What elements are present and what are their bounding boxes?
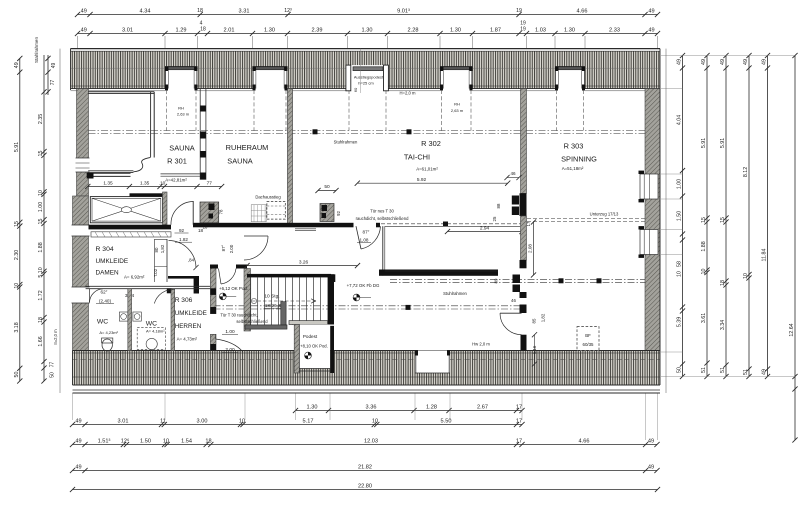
- damen bench: [91, 232, 171, 237]
- svg-text:77: 77: [50, 362, 56, 368]
- Ausstiegspodest opening: [346, 65, 389, 91]
- svg-text:+6,12 OK Pod.: +6,12 OK Pod.: [219, 286, 248, 291]
- svg-text:10: 10: [677, 271, 683, 277]
- svg-text:,84: ,84: [188, 258, 195, 263]
- svg-text:1.66: 1.66: [38, 336, 44, 346]
- dormer opening 1: [165, 67, 198, 90]
- right dim col 5: [767, 56, 769, 377]
- svg-text:2.00: 2.00: [229, 244, 234, 253]
- svg-text:4.66: 4.66: [577, 8, 588, 14]
- svg-text:21.82: 21.82: [358, 464, 372, 470]
- svg-text:80: 80: [154, 247, 159, 252]
- stair landing south band: [245, 325, 287, 329]
- right dim col 1: [682, 56, 684, 377]
- svg-text:1.82: 1.82: [179, 237, 188, 242]
- svg-text:92: 92: [336, 211, 341, 216]
- svg-text:5.92: 5.92: [417, 177, 427, 183]
- purlin dash-dot line spinning: [390, 278, 645, 280]
- svg-text:3.01: 3.01: [118, 418, 129, 424]
- svg-text:(2,40): (2,40): [99, 299, 111, 304]
- dim 2.94: [448, 231, 523, 233]
- svg-text:SAUNA: SAUNA: [227, 157, 253, 166]
- svg-text:18: 18: [38, 317, 44, 323]
- svg-text:R 302: R 302: [421, 139, 441, 148]
- svg-text:49: 49: [648, 8, 654, 14]
- svg-text:18: 18: [203, 225, 208, 230]
- svg-text:R 306: R 306: [175, 297, 193, 304]
- svg-text:19: 19: [520, 27, 526, 33]
- svg-text:1.30: 1.30: [264, 27, 275, 33]
- svg-text:5.39: 5.39: [677, 317, 683, 327]
- purlin dash-dot line upper: [89, 130, 646, 132]
- dim 1.16 vertical: [534, 335, 536, 364]
- svg-text:2.33: 2.33: [609, 27, 620, 33]
- svg-text:5 10: 5 10: [38, 267, 44, 277]
- svg-text:5.91: 5.91: [14, 142, 20, 152]
- svg-text:1.87: 1.87: [490, 27, 501, 33]
- svg-text:1.88: 1.88: [38, 242, 44, 252]
- svg-text:2.39: 2.39: [312, 27, 323, 33]
- left wall opening 3 (62deg door): [72, 287, 90, 303]
- svg-text:49: 49: [81, 27, 87, 33]
- dormer opening 4: [440, 67, 473, 90]
- BF 60/35 box: [577, 327, 599, 351]
- purlin dash-dot line corridor: [214, 305, 521, 307]
- svg-text:50: 50: [14, 372, 20, 378]
- svg-text:3.01: 3.01: [122, 27, 133, 33]
- dimension row top-1: [78, 14, 658, 16]
- right dim col 4: [748, 56, 750, 377]
- right dim col 2: [706, 56, 708, 377]
- svg-text:10 Stg.: 10 Stg.: [264, 294, 279, 300]
- top wall band right edge: [659, 49, 661, 90]
- svg-text:77: 77: [50, 80, 56, 86]
- svg-text:1.35: 1.35: [103, 180, 113, 186]
- svg-text:2.30: 2.30: [14, 250, 20, 260]
- storage room walls: [382, 226, 384, 275]
- svg-text:49: 49: [648, 27, 654, 33]
- svg-text:49: 49: [75, 438, 81, 444]
- svg-text:UMKLEIDE: UMKLEIDE: [175, 310, 207, 317]
- svg-text:49: 49: [81, 8, 87, 14]
- svg-text:R 304: R 304: [96, 246, 114, 253]
- svg-text:18: 18: [720, 280, 726, 286]
- svg-text:89: 89: [494, 278, 499, 283]
- top wall band bottom edge: [71, 88, 166, 90]
- svg-text:87°: 87°: [363, 230, 370, 235]
- sauna cabin right wall: [150, 92, 152, 157]
- bottom band side edges: [72, 351, 74, 386]
- top wall band left edge: [70, 49, 72, 90]
- top wall band top edge: [71, 48, 661, 50]
- svg-text:A= 4,18m²: A= 4,18m²: [146, 328, 165, 333]
- svg-text:1.30: 1.30: [450, 27, 461, 33]
- svg-text:17: 17: [516, 438, 522, 444]
- svg-text:4.66: 4.66: [579, 438, 590, 444]
- shaft X-box: [90, 197, 162, 223]
- dachausstieg ladder: [251, 205, 266, 222]
- svg-text:A=61,01m²: A=61,01m²: [416, 167, 438, 172]
- left wall hatch lower: [73, 196, 89, 352]
- svg-text:WC: WC: [146, 321, 157, 328]
- dormer 3 side projection dashed: [348, 90, 350, 131]
- storage dashed projection line: [381, 223, 521, 225]
- corridor door wedge: [221, 269, 236, 285]
- right dim col 6: [794, 56, 796, 441]
- dormer 1 side projection dashed: [166, 90, 168, 131]
- dim 1.35 row: [88, 186, 222, 188]
- svg-text:10: 10: [14, 283, 20, 289]
- right wall window 2: [640, 230, 658, 255]
- svg-text:Stahlrahmen: Stahlrahmen: [34, 37, 39, 63]
- svg-text:50: 50: [677, 367, 683, 373]
- svg-text:RH: RH: [454, 102, 460, 107]
- taichi door wedge: [356, 226, 361, 249]
- bottom dim row 2: [73, 444, 658, 446]
- stair walk line: [252, 300, 316, 302]
- corridor big door arc: [244, 235, 268, 237]
- wall black segment B: [520, 260, 527, 268]
- left wall opening 1: [76, 158, 90, 172]
- svg-text:3.34: 3.34: [720, 320, 726, 330]
- damen t02 door arc: [169, 241, 197, 268]
- stair east wall: [328, 274, 334, 324]
- corridor south wall east: [193, 223, 354, 228]
- damen door leaf+arc: [192, 201, 194, 225]
- top wall band hatch: [71, 51, 661, 88]
- svg-text:2.67: 2.67: [477, 404, 488, 410]
- purlin square corridor: [406, 305, 411, 310]
- damen door 62: [90, 289, 104, 303]
- svg-text:3.31: 3.31: [239, 8, 250, 14]
- dim 3.26: [247, 265, 358, 267]
- svg-text:18: 18: [197, 8, 203, 14]
- bottom dormer notch: [415, 351, 450, 374]
- wall bar south of t02: [168, 276, 195, 279]
- svg-text:12.64: 12.64: [789, 323, 795, 336]
- column blocks B: [513, 275, 521, 284]
- dormer 4 side projection dashed: [441, 90, 443, 131]
- svg-text:5.91: 5.91: [701, 138, 707, 148]
- svg-text:Unterzug 17/13: Unterzug 17/13: [590, 212, 619, 217]
- corridor north wall by stair: [210, 265, 218, 269]
- svg-text:2,63 m: 2,63 m: [177, 112, 190, 117]
- podest level symbol: [305, 352, 312, 359]
- svg-text:12.03: 12.03: [364, 438, 378, 444]
- svg-text:18: 18: [205, 438, 211, 444]
- svg-text:10: 10: [701, 269, 707, 275]
- taichi south wall jamb: [376, 223, 380, 228]
- svg-text:1.29: 1.29: [176, 27, 187, 33]
- svg-text:Hw 2,0 m: Hw 2,0 m: [472, 342, 490, 347]
- svg-text:12³: 12³: [284, 8, 292, 14]
- svg-text:49: 49: [762, 59, 768, 65]
- Ausstiegspodest left jamb: [346, 65, 351, 91]
- svg-text:17: 17: [516, 418, 522, 424]
- wall ruheraum-taichi: [288, 89, 293, 225]
- wc2 fixtures: [133, 312, 141, 321]
- bottom dim extension lines: [72, 393, 74, 420]
- svg-text:1.30: 1.30: [362, 27, 373, 33]
- purlin squares spinning: [559, 278, 564, 283]
- svg-text:49: 49: [648, 438, 654, 444]
- svg-text:TAI-CHI: TAI-CHI: [404, 153, 430, 162]
- top dim extension lines: [77, 36, 79, 49]
- left wall opening 2: [72, 225, 90, 236]
- svg-text:3.61: 3.61: [701, 313, 707, 323]
- svg-text:A= 4,73m²: A= 4,73m²: [177, 337, 198, 342]
- svg-text:60/35: 60/35: [583, 342, 595, 347]
- wc1 fixtures: [119, 312, 127, 321]
- right dim extension lines: [661, 55, 795, 57]
- svg-text:1.28: 1.28: [426, 404, 437, 410]
- tech corridor north wall: [130, 193, 168, 196]
- svg-text:49: 49: [75, 418, 81, 424]
- wc partition 1: [128, 289, 132, 351]
- svg-text:1.00: 1.00: [225, 329, 235, 335]
- svg-text:R 303: R 303: [564, 142, 584, 151]
- svg-text:HERREN: HERREN: [175, 323, 202, 330]
- svg-text:9.01³: 9.01³: [397, 8, 410, 14]
- svg-text:1.72: 1.72: [38, 290, 44, 300]
- dim 50 over box: [318, 190, 336, 192]
- Ausstiegspodest right jamb: [384, 65, 389, 91]
- svg-text:46: 46: [511, 298, 516, 303]
- dim 2.08 vertical: [533, 222, 535, 275]
- herren east wall: [210, 265, 216, 314]
- svg-text:UMKLEIDE: UMKLEIDE: [96, 258, 129, 265]
- wall right of shaft: [163, 192, 168, 225]
- wall box near ruheraum wall: [320, 204, 334, 222]
- svg-text:15: 15: [38, 151, 44, 157]
- wc2 door arc: [154, 289, 174, 303]
- dormer opening 3: [348, 67, 388, 90]
- right eave extension line: [665, 49, 667, 393]
- svg-text:50: 50: [50, 372, 56, 378]
- dormer 2 side projection dashed: [253, 90, 255, 131]
- svg-text:BF: BF: [585, 333, 591, 338]
- left dim col outer: [19, 58, 21, 381]
- svg-text:10: 10: [372, 418, 378, 424]
- svg-text:85: 85: [532, 318, 537, 323]
- svg-text:Podest: Podest: [303, 334, 318, 339]
- svg-text:49: 49: [743, 59, 749, 65]
- stair north wall: [247, 274, 331, 278]
- svg-text:2.01: 2.01: [224, 27, 235, 33]
- svg-text:RUHERAUM: RUHERAUM: [226, 143, 269, 152]
- svg-text:1.30: 1.30: [307, 404, 318, 410]
- svg-text:49: 49: [720, 59, 726, 65]
- wall black segment A: [520, 193, 527, 216]
- svg-text:1.30: 1.30: [564, 27, 575, 33]
- svg-text:87°: 87°: [221, 244, 226, 251]
- svg-text:15: 15: [701, 217, 707, 223]
- svg-text:17: 17: [516, 404, 522, 410]
- spinning door: [500, 312, 522, 314]
- Ausstiegspodest top bar: [353, 67, 383, 71]
- svg-text:WC: WC: [97, 319, 108, 326]
- stair treads: [250, 277, 252, 325]
- svg-text:1.35: 1.35: [140, 180, 150, 186]
- svg-text:92: 92: [179, 228, 185, 233]
- svg-text:8.12: 8.12: [743, 167, 749, 177]
- svg-text:1,08: 1,08: [360, 238, 369, 243]
- sauna cabin top wall: [88, 91, 154, 93]
- svg-text:60: 60: [353, 87, 358, 92]
- svg-text:49: 49: [14, 62, 20, 68]
- svg-text:T.02: T.02: [153, 268, 158, 277]
- svg-text:+7,72 OK Fb DG: +7,72 OK Fb DG: [347, 283, 380, 288]
- svg-text:A= 4,23m²: A= 4,23m²: [99, 330, 118, 335]
- svg-text:51: 51: [720, 367, 726, 373]
- svg-text:3.36: 3.36: [366, 404, 377, 410]
- corridor door lower arc: [216, 339, 243, 352]
- svg-text:49: 49: [648, 464, 654, 470]
- svg-text:3.26: 3.26: [299, 259, 309, 265]
- svg-text:.10: .10: [159, 180, 166, 186]
- bottom dim row 3: [73, 470, 658, 472]
- svg-text:Tür nes T 30: Tür nes T 30: [370, 209, 394, 214]
- svg-text:49: 49: [75, 464, 81, 470]
- svg-text:Dachausstieg: Dachausstieg: [255, 195, 281, 200]
- svg-text:46: 46: [510, 171, 516, 176]
- svg-text:3.18: 3.18: [14, 322, 20, 332]
- svg-text:A=42,81m²: A=42,81m²: [165, 178, 187, 183]
- sauna heater box: [200, 202, 219, 223]
- svg-text:A=51,18m²: A=51,18m²: [562, 166, 584, 171]
- left dim corner mini line: [47, 55, 49, 95]
- bottom wall band hatch: [73, 351, 661, 386]
- svg-text:5.91: 5.91: [720, 138, 726, 148]
- purlin squares upper: [313, 129, 318, 134]
- right wall hatch: [645, 89, 660, 352]
- bottom dim row 4: [73, 489, 658, 491]
- wall taichi-spinning mid: [521, 216, 527, 260]
- damen locker strip: [154, 239, 156, 282]
- svg-text:11.84: 11.84: [762, 249, 768, 262]
- svg-text:15: 15: [38, 219, 44, 225]
- svg-text:1.54: 1.54: [181, 438, 192, 444]
- svg-text:1.16: 1.16: [532, 345, 537, 354]
- svg-text:Stuhlrahmen: Stuhlrahmen: [334, 140, 358, 145]
- svg-text:1.50: 1.50: [677, 211, 683, 221]
- podest box: [299, 325, 330, 369]
- svg-text:II=2,0 m: II=2,0 m: [53, 329, 58, 345]
- svg-text:3.00: 3.00: [197, 418, 208, 424]
- sauna south wall: [87, 172, 131, 174]
- dormer opening 2: [253, 67, 288, 90]
- left wall hatch upper: [77, 89, 89, 196]
- left eave extension line: [59, 49, 61, 393]
- svg-text:51: 51: [701, 367, 707, 373]
- dim 5.92: [357, 182, 507, 184]
- svg-text:10: 10: [743, 273, 749, 279]
- wc partition 2: [171, 289, 175, 351]
- svg-text:50: 50: [324, 184, 330, 190]
- svg-text:10: 10: [163, 438, 169, 444]
- svg-text:1.51³: 1.51³: [98, 438, 111, 444]
- right dim col 3: [725, 56, 727, 377]
- svg-text:51: 51: [743, 369, 749, 375]
- svg-text:10: 10: [38, 190, 44, 196]
- svg-text:10: 10: [239, 418, 245, 424]
- svg-text:15: 15: [14, 221, 20, 227]
- svg-text:1.88: 1.88: [701, 241, 707, 251]
- right wall window 1: [640, 174, 658, 199]
- svg-text:4.04: 4.04: [677, 115, 683, 125]
- sauna cabin door curve: [133, 157, 150, 171]
- svg-text:25: 25: [492, 216, 497, 221]
- svg-text:selbstschließend: selbstschließend: [236, 319, 268, 324]
- svg-text:1.03: 1.03: [535, 27, 546, 33]
- corridor south wall west: [89, 225, 172, 230]
- svg-text:5.17: 5.17: [303, 418, 314, 424]
- bottom dim row 0: [296, 410, 523, 412]
- svg-text:2.08: 2.08: [528, 244, 533, 253]
- wall black segment C: [521, 335, 527, 351]
- svg-text:1,82: 1,82: [541, 313, 546, 322]
- svg-text:78: 78: [219, 209, 224, 214]
- sauna cabin bottom wall: [88, 170, 133, 172]
- column blocks A: [512, 196, 519, 205]
- svg-text:49: 49: [701, 59, 707, 65]
- svg-text:2.35: 2.35: [38, 114, 44, 124]
- wall sauna-ruheraum: [200, 89, 206, 180]
- svg-text:49: 49: [762, 369, 768, 375]
- svg-text:RH: RH: [178, 106, 184, 111]
- level +6.12: [226, 295, 236, 297]
- svg-text:88: 88: [496, 203, 501, 208]
- svg-text:R 301: R 301: [167, 157, 187, 166]
- svg-text:18: 18: [200, 27, 206, 33]
- svg-text:4.34: 4.34: [140, 8, 151, 14]
- svg-text:1.00: 1.00: [677, 179, 683, 189]
- svg-text:2.28: 2.28: [408, 27, 419, 33]
- svg-text:A= 6,92m²: A= 6,92m²: [124, 275, 145, 280]
- dormer 5 side projection dashed: [556, 90, 558, 131]
- svg-text:SAUNA: SAUNA: [169, 144, 195, 153]
- svg-text:Stuhlrahmen: Stuhlrahmen: [443, 291, 467, 296]
- svg-text:rauchdicht, selbstschließend: rauchdicht, selbstschließend: [356, 216, 410, 221]
- wc row north wall: [86, 285, 211, 287]
- svg-text:22.80: 22.80: [358, 483, 372, 489]
- ground double lines below plan: [73, 389, 661, 391]
- unterzug dashed lines: [527, 218, 645, 220]
- svg-text:49: 49: [677, 59, 683, 65]
- svg-text:1.50: 1.50: [140, 438, 151, 444]
- svg-text:58: 58: [677, 261, 683, 267]
- wall taichi-spinning upper: [521, 89, 527, 194]
- dimension row top-2: [78, 33, 658, 35]
- bottom dim row 1: [73, 424, 523, 426]
- stair west wall: [244, 269, 251, 332]
- svg-text:19: 19: [516, 8, 522, 14]
- svg-text:Ausstiegspodest: Ausstiegspodest: [354, 75, 384, 80]
- dormer opening 5: [555, 67, 585, 90]
- svg-text:SPINNING: SPINNING: [561, 155, 597, 164]
- svg-text:15: 15: [720, 217, 726, 223]
- svg-text:2,63 m: 2,63 m: [451, 108, 464, 113]
- svg-text:1.00: 1.00: [38, 202, 44, 212]
- svg-text:62°: 62°: [101, 290, 108, 295]
- svg-text:77: 77: [207, 180, 213, 186]
- svg-text:12⁶: 12⁶: [121, 437, 130, 444]
- bottom band bottom edges: [73, 384, 661, 386]
- podest landing top bar: [289, 321, 328, 325]
- svg-text:+8,10 OK Pod.: +8,10 OK Pod.: [300, 344, 328, 349]
- svg-text:DAMEN: DAMEN: [96, 270, 119, 277]
- wall stub left of herren: [194, 276, 199, 294]
